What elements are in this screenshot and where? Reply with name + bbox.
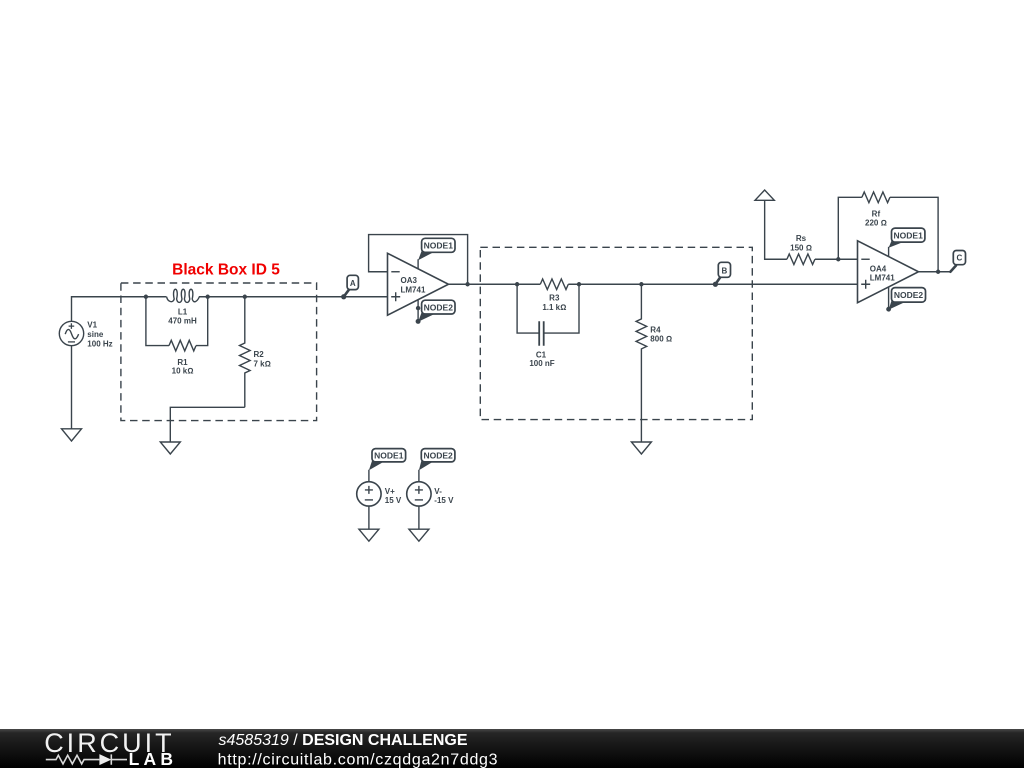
svg-text:http://circuitlab.com/czqdga2n: http://circuitlab.com/czqdga2n7ddg3 <box>218 752 499 768</box>
junction J7 at R4 top <box>639 282 643 286</box>
svg-text:A: A <box>350 279 356 288</box>
node C flag <box>950 251 965 272</box>
svg-text:7 kΩ: 7 kΩ <box>254 359 271 368</box>
junction J9 at OA4 output <box>936 270 940 274</box>
wire Rf feedback loop <box>838 197 938 271</box>
power rail symbol (up triangle) <box>755 190 774 200</box>
svg-text:NODE1: NODE1 <box>894 230 924 240</box>
net flag NODE2 on OA4 V- pin <box>889 288 926 310</box>
wire W4: R1 parallel branch <box>146 297 208 346</box>
net flag NODE1 on OA3 V+ pin <box>418 238 455 260</box>
svg-text:R3: R3 <box>549 294 560 303</box>
svg-text:-15 V: -15 V <box>434 496 454 505</box>
OA4 V+ power pin <box>888 247 890 257</box>
wire W7: R3 right to OA4 noninverting input <box>568 283 857 285</box>
resistor R2 <box>240 297 251 408</box>
wire W9: Rs to OA4 inverting input <box>815 258 858 260</box>
svg-text:OA3: OA3 <box>401 276 418 285</box>
svg-text:Rs: Rs <box>796 234 807 243</box>
wire W2: inductor L1 right to OA3 noninverting input <box>208 296 388 298</box>
svg-text:sine: sine <box>87 330 104 339</box>
svg-text:100 nF: 100 nF <box>529 359 554 368</box>
label Rs value <box>790 210 887 253</box>
svg-text:1.1 kΩ: 1.1 kΩ <box>542 303 566 312</box>
svg-text:Black Box ID 5: Black Box ID 5 <box>172 262 280 279</box>
junction J6 at R3/C1 right <box>577 282 581 286</box>
wire W6: OA3 output to R3 left <box>449 283 541 285</box>
inductor L1 <box>167 289 208 302</box>
svg-text:LM741: LM741 <box>401 286 426 295</box>
ground GND1 <box>62 429 82 441</box>
label V- value <box>434 487 454 505</box>
net flag NODE2 on OA3 V- pin <box>418 300 455 322</box>
net flag NODE1 on V+ <box>369 460 384 470</box>
resistor R3 <box>540 279 568 290</box>
voltage source V1 sine <box>59 321 83 345</box>
label V1 value <box>87 321 112 349</box>
label V+ value <box>385 487 402 505</box>
svg-text:LAB: LAB <box>129 749 178 768</box>
svg-text:800 Ω: 800 Ω <box>650 335 672 344</box>
junction J1 at L1 left <box>144 295 148 299</box>
capacitor C1 branch wires <box>517 284 579 333</box>
svg-text:NODE1: NODE1 <box>374 451 404 461</box>
label R3 value <box>529 294 566 368</box>
svg-text:15 V: 15 V <box>385 496 402 505</box>
label L1 value <box>168 308 197 376</box>
capacitor C1 plates <box>539 321 544 346</box>
wire W3: V1 bottom to ground <box>71 346 73 429</box>
junction J3 at R2 top <box>243 295 247 299</box>
label R2 value <box>254 350 271 368</box>
node B flag <box>713 262 731 287</box>
svg-text:NODE2: NODE2 <box>423 451 453 461</box>
filter box dashed boundary <box>480 247 752 419</box>
svg-text:LM741: LM741 <box>870 274 895 283</box>
svg-text:NODE1: NODE1 <box>424 241 454 251</box>
wire V+ bottom to ground <box>368 506 370 529</box>
svg-text:C: C <box>957 254 963 263</box>
svg-text:s4585319 / DESIGN CHALLENGE: s4585319 / DESIGN CHALLENGE <box>219 732 468 749</box>
OA4 V- power pin <box>888 287 890 309</box>
resistor R4 <box>636 284 647 442</box>
resistor Rs <box>787 254 815 265</box>
svg-text:NODE2: NODE2 <box>894 290 924 300</box>
svg-text:OA4: OA4 <box>870 264 887 273</box>
resistor R1 <box>169 340 196 351</box>
junction J2 at L1 right <box>206 295 210 299</box>
ground GND3 <box>631 442 651 454</box>
op-amp OA4 <box>858 241 919 309</box>
svg-text:10 kΩ: 10 kΩ <box>172 366 194 375</box>
black box dashed boundary <box>121 283 317 421</box>
wire NODE2 flag to V- top <box>418 470 420 482</box>
junction J5 at R3/C1 left <box>515 282 519 286</box>
svg-text:NODE2: NODE2 <box>424 302 454 312</box>
svg-text:470 mH: 470 mH <box>168 316 197 325</box>
voltage source V- -15V <box>407 449 455 542</box>
junction J4 at OA3 output <box>465 282 469 286</box>
wire W5: R2 bottom to ground <box>170 407 245 442</box>
wire W1: V1 top to inductor L1 left <box>72 297 167 322</box>
wire W10: OA4 output to node C <box>919 271 951 273</box>
OA3 V- power pin <box>417 300 419 322</box>
net flag NODE2 on V- <box>419 460 433 470</box>
OA3 V+ power pin <box>417 259 419 269</box>
wire W8: up triangle to Rs <box>765 200 787 259</box>
op-amp OA3 <box>388 253 449 321</box>
label R4 value <box>650 326 672 344</box>
svg-text:150 Ω: 150 Ω <box>790 243 812 252</box>
svg-text:220 Ω: 220 Ω <box>865 218 887 227</box>
svg-text:R4: R4 <box>650 326 661 335</box>
node A flag <box>341 275 358 299</box>
wire V- bottom to ground <box>418 506 420 529</box>
svg-text:V-: V- <box>434 487 442 496</box>
ground GND5 <box>409 529 429 541</box>
svg-text:B: B <box>722 266 728 275</box>
svg-text:100 Hz: 100 Hz <box>87 339 112 348</box>
resistor Rf <box>862 192 890 203</box>
svg-text:V+: V+ <box>385 487 395 496</box>
svg-text:Rf: Rf <box>872 210 881 219</box>
svg-text:R2: R2 <box>254 350 265 359</box>
footer bar <box>0 729 1024 768</box>
wire NODE1 flag to V+ top <box>368 470 370 482</box>
wire OA3 feedback loop <box>369 235 468 285</box>
net flag NODE1 on OA4 V+ pin <box>889 228 925 248</box>
ground GND4 <box>359 529 379 541</box>
voltage source V+ 15V <box>357 449 406 542</box>
CircuitLab logo <box>44 728 177 768</box>
junction J8 Rs/feedback <box>836 257 840 261</box>
svg-text:V1: V1 <box>87 321 97 330</box>
ground GND2 <box>160 442 180 454</box>
